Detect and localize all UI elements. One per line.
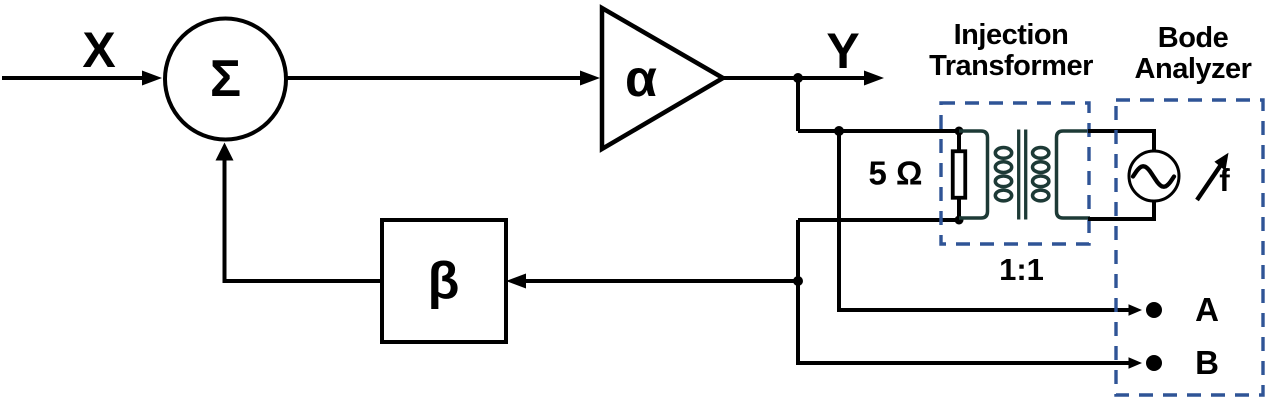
svg-text:Bode: Bode xyxy=(1158,22,1229,54)
svg-text:A: A xyxy=(1195,291,1219,328)
svg-text:5 Ω: 5 Ω xyxy=(869,155,923,192)
terminal B xyxy=(1146,344,1219,381)
label 5 Ohm xyxy=(869,155,923,192)
svg-text:Y: Y xyxy=(826,23,859,79)
node junction resistor bottom xyxy=(955,216,964,225)
node junction resistor top xyxy=(955,127,964,136)
wire bottom rail from corner to resistor xyxy=(798,218,959,222)
wire top rail to resistor xyxy=(798,129,959,133)
wire input X xyxy=(2,71,162,86)
transformer T1 primary winding xyxy=(959,131,1012,218)
node junction feedback tap xyxy=(793,276,803,286)
dashed box injection transformer xyxy=(941,103,1089,244)
svg-text:Σ: Σ xyxy=(210,50,241,108)
label Injection Transformer xyxy=(929,19,1093,82)
transformer T1 core xyxy=(1019,130,1026,220)
svg-text:α: α xyxy=(625,50,657,108)
wire amplifier output Y xyxy=(723,71,884,86)
svg-text:Transformer: Transformer xyxy=(929,50,1093,82)
wire feedback to beta box xyxy=(506,274,798,289)
label Bode Analyzer xyxy=(1135,22,1252,85)
transformer T1 secondary winding xyxy=(1033,131,1091,218)
source V1 sine generator xyxy=(1129,151,1179,201)
node junction top rail A-tap xyxy=(834,126,844,136)
summing junction U1 xyxy=(165,19,286,140)
wire summer to amplifier xyxy=(286,71,600,86)
svg-text:β: β xyxy=(428,252,460,310)
block beta xyxy=(382,220,506,342)
svg-text:X: X xyxy=(82,22,115,78)
wire secondary to source top xyxy=(1088,131,1154,152)
svg-text:1:1: 1:1 xyxy=(999,252,1044,287)
wire bottom rail corner down to B xyxy=(798,220,1142,369)
svg-text:Injection: Injection xyxy=(954,19,1069,51)
wire A-tap down and right to terminal A xyxy=(839,131,1142,316)
svg-text:Analyzer: Analyzer xyxy=(1135,53,1252,85)
wire beta to summer xyxy=(216,143,383,282)
label 1:1 xyxy=(999,252,1044,287)
wire secondary to source bottom xyxy=(1088,200,1154,219)
node X label xyxy=(82,22,115,78)
node junction Y xyxy=(793,73,803,83)
svg-text:B: B xyxy=(1195,344,1219,381)
node Y label xyxy=(826,23,859,79)
op-amp amplifier alpha xyxy=(602,8,723,149)
wire Y down to top rail xyxy=(796,78,800,131)
label f with sweep arrow xyxy=(1197,153,1230,200)
terminal A xyxy=(1146,291,1219,328)
svg-text:f: f xyxy=(1219,162,1230,198)
resistor R1 5 Ohm xyxy=(953,131,966,220)
dashed box bode analyzer xyxy=(1116,100,1263,395)
